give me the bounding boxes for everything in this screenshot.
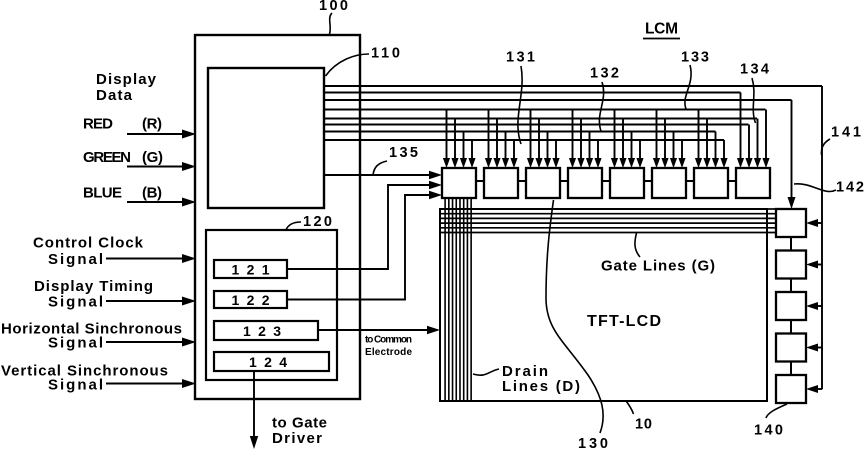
leader 142 — [794, 184, 836, 192]
drop wire to source driver 1 pin 1 — [446, 110, 448, 161]
source driver box 1 — [442, 168, 476, 198]
drop wire to source driver 3 pin 3 — [547, 132, 549, 161]
source driver box 8 — [736, 168, 770, 198]
svg-text:133: 133 — [681, 50, 709, 66]
connector between source driver 1 and 2 — [476, 180, 484, 182]
controller outer box 100 — [195, 35, 360, 399]
bus line 3 from 110 — [324, 99, 792, 101]
svg-text:Control Clock: Control Clock — [33, 235, 144, 252]
arrow into gate driver 2 right side — [806, 261, 818, 269]
arrow into source driver 6 pin 3 — [670, 158, 677, 168]
svg-text:Lines (D): Lines (D) — [502, 378, 580, 395]
arrow into source driver 6 pin 1 — [653, 158, 660, 168]
drop wire to source driver 4 pin 4 — [597, 140, 599, 160]
connector between source driver 2 and 3 — [518, 180, 526, 182]
svg-text:100: 100 — [319, 0, 348, 14]
drop wire to source driver 6 pin 1 — [656, 110, 658, 161]
gate driver box 2 — [776, 251, 806, 279]
svg-text:(B): (B) — [142, 185, 162, 202]
arrow into source driver 5 pin 4 — [636, 158, 643, 168]
svg-text:134: 134 — [740, 62, 769, 78]
source driver box 2 — [484, 168, 518, 198]
drain line 6 — [463, 198, 465, 401]
drop wire to source driver 5 pin 3 — [631, 132, 633, 161]
gate line 5 — [440, 232, 776, 234]
svg-text:to Common: to Common — [365, 335, 412, 346]
drop wire to source driver 7 pin 4 — [723, 140, 725, 160]
svg-text:122: 122 — [232, 292, 270, 308]
arrow into source driver 4 pin 3 — [586, 158, 593, 168]
wire to gate driver 5 — [817, 388, 822, 390]
leader 131 — [518, 66, 522, 144]
bus line 2 from 110 — [324, 92, 741, 94]
leader 132 — [599, 82, 603, 131]
connector between gate driver 4 and 5 — [790, 362, 792, 376]
svg-text:Display Timing: Display Timing — [34, 278, 153, 295]
svg-text:130: 130 — [578, 436, 608, 452]
svg-text:RED: RED — [83, 116, 113, 133]
svg-text:121: 121 — [232, 262, 270, 278]
arrow into source driver 2 pin 3 — [502, 158, 509, 168]
gate line top extension — [767, 208, 776, 210]
drop wire to source driver 4 pin 2 — [580, 119, 582, 161]
leader 110 — [326, 54, 370, 76]
svg-text:140: 140 — [754, 423, 783, 439]
leader 130 — [546, 200, 603, 433]
svg-text:Data: Data — [96, 87, 133, 104]
arrow into source driver 3 pin 3 — [544, 158, 551, 168]
svg-text:110: 110 — [371, 46, 400, 62]
svg-text:120: 120 — [303, 214, 332, 230]
arrow into gate driver 3 right side — [806, 302, 818, 310]
source driver box 7 — [694, 168, 728, 198]
arrow into source driver 1 pin 2 — [451, 158, 458, 168]
control block 120 — [206, 230, 337, 380]
wire 142 drop from bus line 3 — [791, 100, 793, 198]
svg-text:Electrode: Electrode — [365, 347, 412, 358]
drain line 1 — [444, 198, 446, 401]
bus line 7 from 110 — [324, 131, 716, 133]
connector between source driver 5 and 6 — [644, 180, 652, 182]
arrow into source driver 3 pin 4 — [552, 158, 559, 168]
wire from 122 to source driver 1 — [287, 195, 430, 300]
drop wire to source driver 7 pin 3 — [715, 132, 717, 161]
bus line 1 from 110 — [324, 85, 822, 87]
register block 121 — [214, 260, 287, 278]
wire from 121 to source driver 1 — [287, 185, 430, 269]
arrow into source driver 2 pin 1 — [485, 158, 492, 168]
arrow into source driver 6 pin 2 — [661, 158, 668, 168]
arrow display timing input — [106, 300, 185, 302]
leader gate lines — [635, 233, 640, 257]
wire to gate driver 2 — [817, 264, 822, 266]
arrow into source driver 7 pin 3 — [712, 158, 719, 168]
arrow into source driver 2 pin 4 — [510, 158, 517, 168]
drop wire to source driver 1 pin 2 — [454, 119, 456, 161]
leader 141 — [821, 139, 830, 155]
arrow into source driver 7 pin 1 — [695, 158, 702, 168]
arrow into source driver 1 pin 1 — [443, 158, 450, 168]
arrow RED input — [127, 133, 185, 135]
svg-text:131: 131 — [506, 50, 535, 66]
svg-text:TFT-LCD: TFT-LCD — [587, 313, 661, 330]
connector between gate driver 2 and 3 — [790, 279, 792, 293]
drain line 2 — [448, 198, 450, 401]
svg-text:135: 135 — [389, 145, 418, 161]
arrow into source driver 4 pin 1 — [569, 158, 576, 168]
arrow vertical sync input — [106, 383, 185, 385]
drain line 3 — [452, 198, 454, 401]
drop wire to source driver 2 pin 4 — [513, 140, 515, 160]
wire 135 from 110 to source driver 1 — [324, 174, 432, 176]
svg-text:(R): (R) — [142, 116, 162, 133]
arrow into source driver 4 pin 2 — [577, 158, 584, 168]
leader 133 — [685, 65, 691, 109]
gate line 3 — [440, 222, 776, 224]
svg-text:BLUE: BLUE — [83, 185, 122, 202]
arrow wire 122 into source driver 1 — [429, 191, 442, 199]
arrow wire 121 into source driver 1 — [429, 181, 442, 189]
arrow GREEN input — [127, 166, 185, 168]
svg-text:132: 132 — [590, 66, 619, 82]
arrow into source driver 2 pin 2 — [493, 158, 500, 168]
drain line 7 — [466, 198, 468, 401]
gate line 4 — [440, 227, 776, 229]
drop wire to source driver 6 pin 2 — [664, 119, 666, 161]
wire from 123 to common electrode — [318, 329, 429, 331]
drop wire to source driver 8 pin 3 — [757, 119, 759, 161]
drop wire to source driver 8 pin 1 — [740, 93, 742, 161]
drop wire to source driver 4 pin 1 — [572, 110, 574, 161]
connector between gate driver 1 and 2 — [790, 237, 792, 251]
arrow into source driver 8 pin 3 — [754, 158, 761, 168]
drop wire to source driver 8 pin 4 — [765, 110, 767, 161]
drop wire to source driver 3 pin 2 — [538, 119, 540, 161]
arrow BLUE input — [127, 201, 185, 203]
drop wire to source driver 7 pin 1 — [698, 110, 700, 161]
drop wire to source driver 5 pin 4 — [639, 140, 641, 160]
arrow wire 135 into source driver 1 — [429, 171, 442, 179]
svg-text:(G): (G) — [142, 149, 163, 166]
drop wire to source driver 1 pin 3 — [463, 132, 465, 161]
drop wire to source driver 8 pin 2 — [748, 125, 750, 161]
leader 100 — [330, 13, 333, 34]
arrow into source driver 5 pin 3 — [628, 158, 635, 168]
register block 122 — [214, 291, 287, 308]
drop wire to source driver 4 pin 3 — [589, 132, 591, 161]
drop wire to source driver 6 pin 4 — [681, 140, 683, 160]
gate line 1 — [440, 213, 776, 215]
arrow into source driver 5 pin 1 — [611, 158, 618, 168]
svg-text:Driver: Driver — [272, 430, 322, 447]
bus line 8 from 110 — [324, 139, 724, 141]
gate driver box 4 — [776, 334, 806, 362]
leader 120 — [286, 222, 301, 230]
register block 124 — [214, 352, 329, 371]
svg-text:GREEN: GREEN — [83, 149, 131, 166]
drop wire to source driver 3 pin 4 — [555, 140, 557, 160]
leader 10 — [627, 402, 634, 415]
arrow into source driver 3 pin 1 — [527, 158, 534, 168]
arrow into source driver 8 pin 2 — [745, 158, 752, 168]
arrow into panel common electrode — [427, 326, 440, 334]
arrow into source driver 4 pin 4 — [594, 158, 601, 168]
gate driver box 1 — [776, 209, 806, 237]
drop wire to source driver 7 pin 2 — [706, 119, 708, 161]
wire to gate driver 3 — [817, 305, 822, 307]
source driver box 4 — [568, 168, 602, 198]
arrow into gate driver 1 right side — [806, 219, 818, 227]
drop wire to source driver 5 pin 1 — [614, 110, 616, 161]
arrow into source driver 7 pin 4 — [720, 158, 727, 168]
leader drain lines — [473, 369, 499, 375]
drop wire to source driver 2 pin 2 — [496, 119, 498, 161]
svg-text:142: 142 — [836, 180, 864, 196]
arrow into source driver 8 pin 1 — [737, 158, 744, 168]
drain line 4 — [455, 198, 457, 401]
drain line 5 — [459, 198, 461, 401]
source driver box 6 — [652, 168, 686, 198]
bus line 5 from 110 — [324, 118, 757, 120]
gate driver box 3 — [776, 292, 806, 320]
drop wire to source driver 2 pin 3 — [505, 132, 507, 161]
arrow control clock input — [106, 258, 185, 260]
connector between gate driver 3 and 4 — [790, 320, 792, 334]
drain line 8 — [470, 198, 472, 401]
arrow into source driver 5 pin 2 — [619, 158, 626, 168]
arrow horizontal sync input — [106, 341, 185, 343]
source driver box 5 — [610, 168, 644, 198]
drop wire to source driver 2 pin 1 — [488, 110, 490, 161]
bus line 6 from 110 — [324, 124, 749, 126]
arrow into source driver 7 pin 2 — [703, 158, 710, 168]
arrow into gate driver 1 top — [788, 197, 796, 209]
connector between source driver 7 and 8 — [728, 180, 736, 182]
TFT-LCD panel 10 — [440, 209, 767, 401]
gate line 2 — [440, 217, 776, 219]
drop wire to source driver 3 pin 1 — [530, 110, 532, 161]
gate driver box 5 — [776, 375, 806, 403]
leader 134 — [752, 78, 756, 123]
bus line 4 from 110 — [324, 109, 766, 111]
drop wire to source driver 5 pin 2 — [622, 119, 624, 161]
wire to gate driver 4 — [817, 347, 822, 349]
arrow into source driver 6 pin 4 — [678, 158, 685, 168]
connector between source driver 6 and 7 — [686, 180, 694, 182]
arrow into source driver 8 pin 4 — [762, 158, 769, 168]
wire from 124 to gate driver — [253, 371, 255, 436]
svg-text:123: 123 — [243, 323, 281, 339]
svg-text:Display: Display — [96, 71, 157, 88]
drop wire to source driver 1 pin 4 — [471, 140, 473, 160]
source driver box 3 — [526, 168, 560, 198]
connector between source driver 4 and 5 — [602, 180, 610, 182]
drop wire to source driver 6 pin 3 — [673, 132, 675, 161]
arrow into source driver 1 pin 3 — [460, 158, 467, 168]
register block 123 — [214, 321, 318, 340]
connector between source driver 3 and 4 — [560, 180, 568, 182]
arrow into gate driver 4 right side — [806, 344, 818, 352]
wire to gate driver 1 — [817, 222, 822, 224]
leader 135 — [373, 161, 387, 175]
display-data receiver block 110 — [208, 68, 324, 208]
svg-text:LCM: LCM — [645, 21, 678, 38]
svg-text:Gate Lines (G): Gate Lines (G) — [601, 258, 715, 275]
svg-text:141: 141 — [831, 125, 861, 141]
svg-text:10: 10 — [635, 417, 652, 433]
svg-text:124: 124 — [249, 354, 287, 370]
arrow into source driver 3 pin 2 — [535, 158, 542, 168]
underline LCM — [643, 38, 680, 40]
leader 140 — [766, 404, 787, 418]
arrow into source driver 1 pin 4 — [468, 158, 475, 168]
wire 141 vertical bus — [821, 86, 823, 389]
svg-text:to Gate: to Gate — [272, 415, 327, 432]
arrow to gate driver — [250, 436, 258, 449]
arrow into gate driver 5 right side — [806, 385, 818, 393]
